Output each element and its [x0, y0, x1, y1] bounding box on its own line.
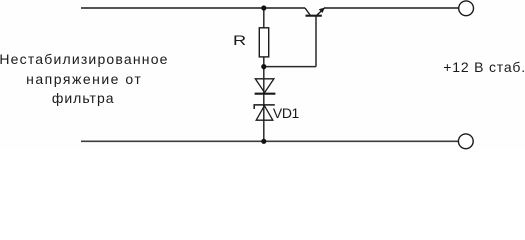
node junction middle — [261, 64, 266, 69]
label: input description line 3 — [52, 91, 115, 105]
label +12 V stab — [443, 60, 525, 74]
wire vertical branch — [263, 8, 265, 141]
terminal circle top right — [459, 1, 474, 16]
label: input description line 1 — [0, 52, 169, 66]
diode VD1a (top diode, anode up) — [255, 79, 276, 94]
node junction bottom — [261, 139, 266, 144]
transistor emitter slant — [317, 8, 324, 15]
resistor R — [259, 28, 268, 57]
label R — [233, 33, 246, 47]
wire top right segment — [324, 7, 459, 9]
transistor emitter arrow — [319, 8, 325, 14]
label: input description line 2 — [26, 72, 142, 86]
wire base link vertical — [315, 16, 317, 67]
wire bottom — [81, 140, 459, 142]
node junction top — [261, 5, 266, 10]
transistor base bar — [306, 15, 322, 17]
zener diode VD1b (bottom, cathode bar with bent end) — [254, 105, 275, 120]
wire base link horizontal — [264, 66, 316, 68]
transistor VT (collector slant) — [305, 8, 310, 15]
label VD1 — [273, 106, 299, 120]
terminal circle bottom right — [458, 134, 473, 149]
wire top left segment — [81, 7, 305, 9]
